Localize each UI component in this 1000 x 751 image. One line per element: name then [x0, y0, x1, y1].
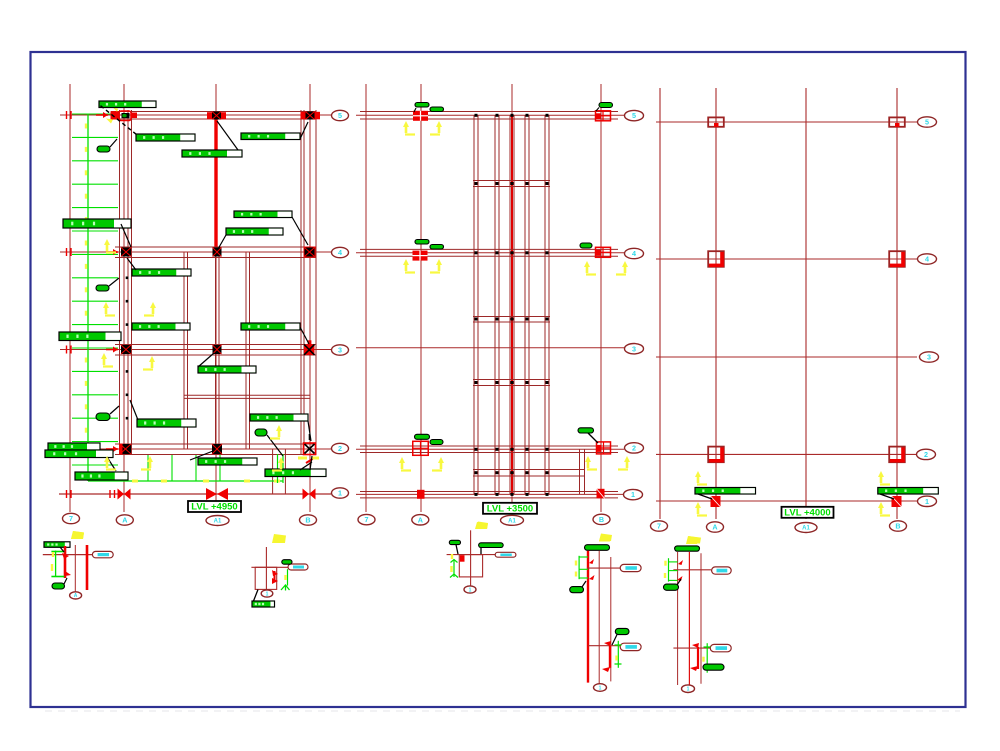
svg-text:LVL +4000: LVL +4000: [784, 507, 830, 518]
svg-text:4: 4: [338, 248, 342, 257]
svg-text:1: 1: [631, 490, 635, 499]
svg-text:A: A: [418, 515, 423, 524]
svg-text:LVL +4950: LVL +4950: [191, 502, 237, 513]
svg-text:A: A: [712, 523, 717, 532]
svg-text:B: B: [305, 516, 310, 525]
svg-text:A: A: [122, 516, 127, 525]
svg-text:3: 3: [338, 346, 342, 355]
svg-text:1: 1: [599, 685, 602, 691]
svg-text:4: 4: [632, 249, 636, 258]
svg-text:3: 3: [632, 344, 636, 353]
svg-text:3: 3: [927, 353, 931, 362]
svg-text:5: 5: [632, 111, 636, 120]
svg-text:1: 1: [266, 591, 269, 597]
svg-text:1: 1: [469, 587, 472, 593]
svg-text:A1: A1: [508, 518, 516, 524]
svg-text:LVL +3500: LVL +3500: [487, 503, 533, 514]
svg-text:2: 2: [924, 450, 928, 459]
svg-text:A1: A1: [802, 526, 810, 532]
svg-text:B: B: [895, 522, 900, 531]
svg-text:5: 5: [925, 118, 929, 127]
svg-text:7: 7: [657, 522, 661, 531]
svg-text:1: 1: [687, 687, 690, 693]
svg-text:5: 5: [338, 111, 342, 120]
svg-text:2: 2: [632, 443, 636, 452]
svg-text:A: A: [74, 593, 78, 599]
svg-text:7: 7: [69, 514, 73, 523]
svg-text:7: 7: [365, 515, 369, 524]
svg-text:2: 2: [338, 444, 342, 453]
svg-text:A1: A1: [214, 519, 222, 525]
svg-text:1: 1: [925, 497, 929, 506]
svg-text:1: 1: [338, 489, 342, 498]
svg-text:B: B: [599, 515, 604, 524]
svg-text:4: 4: [925, 255, 929, 264]
